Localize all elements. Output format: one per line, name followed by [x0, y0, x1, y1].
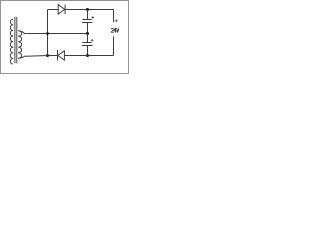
plus label C1 — [92, 16, 95, 19]
border frame — [1, 1, 129, 74]
wire output positive drop — [113, 10, 115, 23]
junction node top rail / C1 — [86, 8, 89, 11]
wire AC middle rail — [24, 33, 88, 35]
label 24V — [111, 28, 118, 32]
plus label C2 — [91, 39, 94, 42]
capacitor C1 — [82, 10, 93, 34]
wire top positive rail — [48, 9, 114, 11]
wire bottom dot to diode — [48, 55, 58, 57]
background — [0, 0, 130, 75]
junction crossing dot — [46, 32, 49, 35]
junction node bottom rail / C2 — [86, 54, 89, 57]
wire output return drop — [113, 37, 115, 56]
wire secondary bottom terminal — [18, 56, 24, 58]
wire secondary top terminal — [18, 31, 24, 34]
transformer T1 secondary winding — [18, 31, 21, 59]
transformer T1 core — [14, 17, 16, 64]
junction node bottom — [46, 54, 49, 57]
transformer T1 primary winding — [10, 19, 13, 64]
plus label output — [115, 20, 118, 23]
diode D1 — [58, 5, 65, 15]
wire bottom rail left segment — [24, 55, 48, 58]
diode D2 — [58, 50, 65, 61]
wire center branch vertical — [47, 10, 49, 56]
wire bottom rail right segment — [64, 55, 113, 57]
capacitor C2 — [82, 34, 93, 56]
junction node mid rail / C1-C2 — [86, 32, 89, 35]
